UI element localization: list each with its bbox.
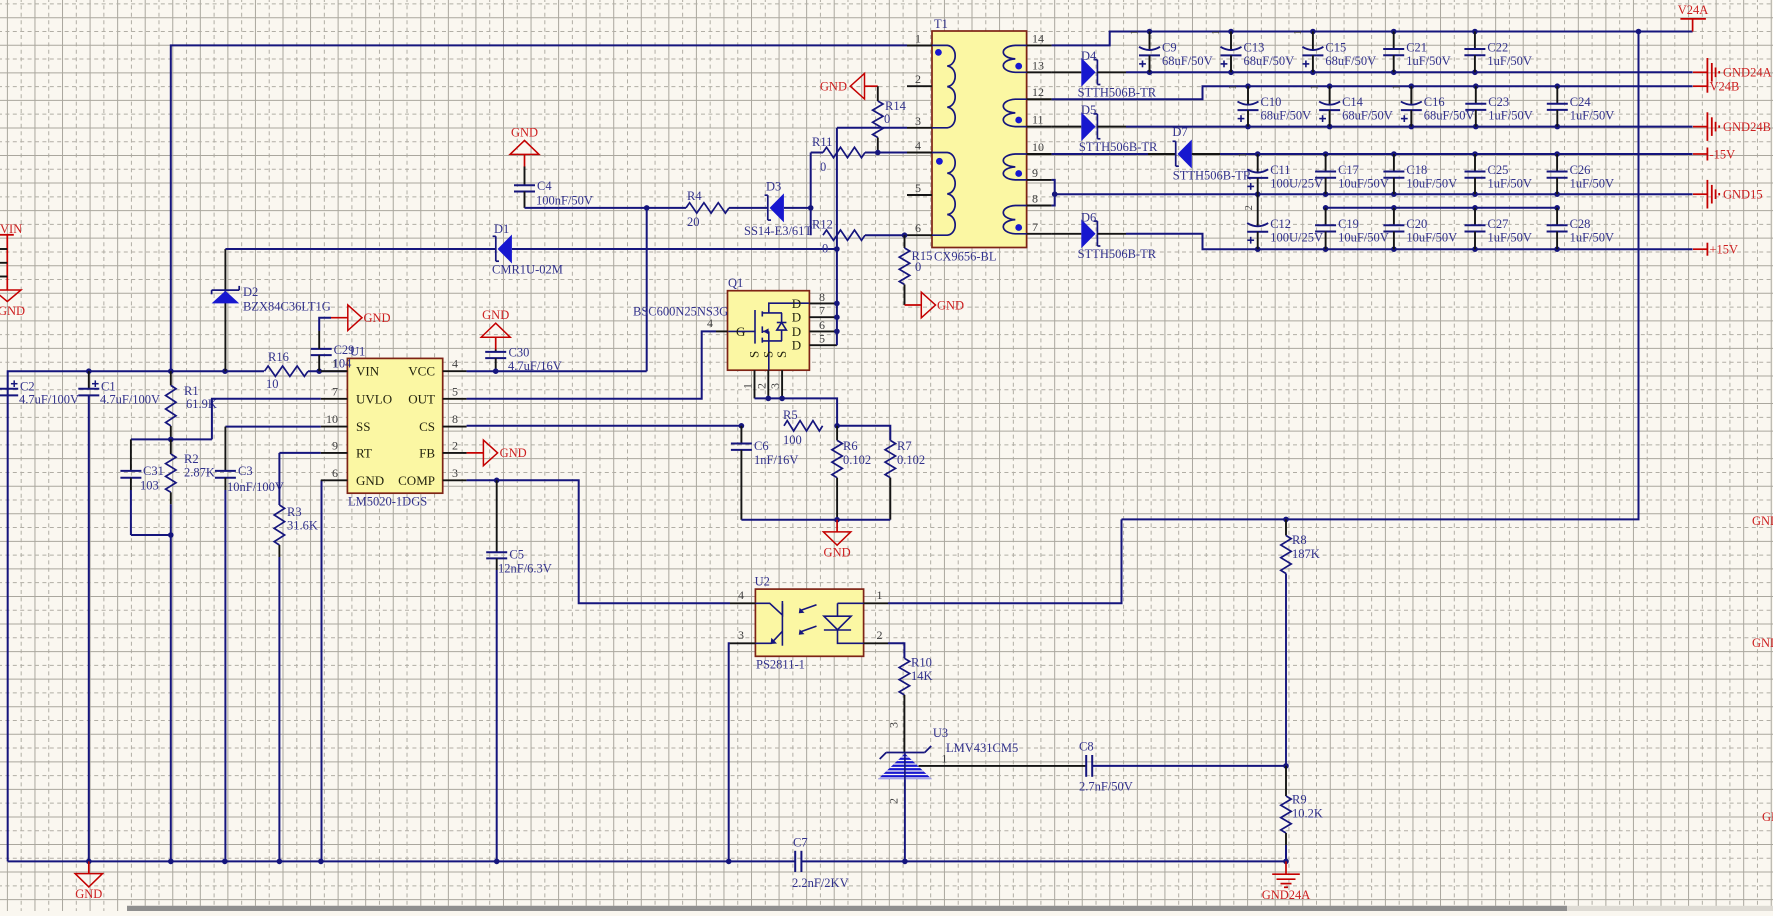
svg-text:1: 1 — [941, 752, 947, 766]
wire bus to U1 VIN — [308, 370, 347, 372]
junction subrail x1475 — [1472, 205, 1478, 211]
resistor R7 lead — [889, 478, 891, 520]
svg-text:0: 0 — [822, 242, 828, 256]
svg-text:C17: C17 — [1338, 163, 1359, 177]
svg-text:C11: C11 — [1270, 163, 1290, 177]
junction +15V x1475 — [1472, 246, 1478, 252]
wire D1 to Q1 drain net — [512, 248, 837, 250]
junction +15V x1557.1 — [1554, 246, 1560, 252]
wire C31 R2 bottom — [131, 534, 171, 536]
svg-text:Q1: Q1 — [728, 276, 743, 290]
svg-text:100U/25V: 100U/25V — [1270, 230, 1323, 244]
pin T1.7 — [1027, 233, 1052, 235]
svg-text:6: 6 — [915, 221, 921, 235]
svg-text:VIN: VIN — [356, 364, 380, 379]
junction V24A x1312.9 — [1310, 29, 1316, 35]
pin T1.14 — [1027, 44, 1052, 46]
wire bottom gnd rail right — [801, 860, 1286, 862]
junction drain 8 — [834, 301, 840, 307]
wire RT — [279, 452, 320, 454]
svg-text:GND: GND — [356, 473, 384, 488]
pin T1.5 — [907, 194, 932, 196]
pin T1.8 — [1027, 205, 1052, 207]
junction GND24A x1149.5 — [1147, 70, 1153, 76]
wire left loop / input bus — [8, 371, 264, 861]
pin Q1 source 2 — [767, 370, 769, 398]
wire row4 top subrail — [1326, 207, 1558, 209]
svg-text:C12: C12 — [1270, 217, 1291, 231]
svg-text:2: 2 — [887, 798, 901, 804]
pin T1.3 — [907, 127, 932, 129]
svg-text:GND2: GND2 — [1752, 636, 1773, 650]
svg-text:5: 5 — [915, 181, 921, 195]
svg-text:D: D — [792, 324, 801, 339]
junction -15V x1475 — [1472, 151, 1478, 157]
svg-text:1: 1 — [877, 588, 883, 602]
junction rail R3 — [277, 859, 283, 865]
junction drain 7 — [834, 314, 840, 320]
svg-text:+15V: +15V — [1710, 243, 1739, 257]
pin T1.10 — [1027, 153, 1052, 155]
svg-text:STTH506B-TR: STTH506B-TR — [1173, 169, 1252, 183]
svg-text:R16: R16 — [268, 350, 289, 364]
pin T1.1 — [907, 44, 932, 46]
svg-text:GND15: GND15 — [1723, 188, 1763, 202]
polarity dot S2 — [1015, 117, 1022, 124]
wire Q1 drain vertical — [836, 128, 838, 345]
pin T1.9 — [1027, 179, 1052, 181]
svg-text:1uF/50V: 1uF/50V — [1570, 230, 1614, 244]
svg-text:1uF/50V: 1uF/50V — [1487, 54, 1531, 68]
svg-text:C1: C1 — [101, 380, 116, 394]
resistor R9 — [1281, 796, 1291, 833]
svg-text:R10: R10 — [911, 656, 932, 670]
svg-text:C22: C22 — [1487, 41, 1508, 55]
junction bus D2 — [222, 368, 228, 374]
svg-text:D3: D3 — [766, 180, 781, 194]
resistor R9 lead — [1285, 766, 1287, 796]
pin U1 right 2 — [443, 452, 467, 454]
diode D2 BZX84C36LT1G — [212, 249, 240, 371]
svg-text:LM5020-1DGS: LM5020-1DGS — [348, 495, 427, 509]
junction -15V x1325.6 — [1323, 151, 1329, 157]
svg-text:2: 2 — [452, 438, 458, 452]
wire U2 pin3 down — [729, 643, 730, 861]
resistor R6 lead — [836, 426, 838, 441]
svg-text:68uF/50V: 68uF/50V — [1342, 109, 1393, 123]
scrollbar track — [127, 906, 1773, 911]
resistor R2 — [166, 454, 176, 492]
resistor R6 lead2 — [836, 478, 838, 520]
svg-text:SS14-E3/61T: SS14-E3/61T — [744, 224, 812, 238]
wire R12 to T1 pin6 — [865, 234, 905, 236]
svg-text:GND: GND — [820, 80, 847, 94]
svg-text:BZX84C36LT1G: BZX84C36LT1G — [243, 300, 331, 314]
junction +15V x1325.6 — [1323, 246, 1329, 252]
svg-text:10: 10 — [326, 412, 338, 426]
svg-text:2.2nF/2KV: 2.2nF/2KV — [792, 876, 849, 890]
wire bottom gnd rail left — [8, 860, 796, 862]
resistor R3 — [274, 505, 284, 545]
svg-text:U3: U3 — [933, 726, 948, 740]
svg-text:2.7nF/50V: 2.7nF/50V — [1079, 780, 1133, 794]
ground GND24A earth — [1272, 861, 1300, 887]
junction C6 — [739, 423, 745, 429]
wire V24A rail — [1052, 32, 1693, 46]
capacitor C7 — [795, 851, 801, 872]
junction GND24B x1557.3 — [1555, 124, 1561, 130]
svg-text:D4: D4 — [1081, 49, 1097, 63]
power GND bottom left — [75, 861, 102, 887]
pin U3.2 — [904, 779, 906, 861]
capacitor C23 — [1465, 86, 1486, 126]
resistor R7 — [885, 440, 895, 477]
svg-text:0.102: 0.102 — [897, 453, 925, 467]
svg-text:0.102: 0.102 — [843, 453, 871, 467]
junction subrail x1393.9 — [1391, 205, 1397, 211]
svg-text:R11: R11 — [812, 135, 832, 149]
svg-text:7: 7 — [819, 304, 825, 318]
resistor R14 — [873, 101, 883, 138]
capacitor C30 — [485, 350, 506, 372]
svg-text:20: 20 — [687, 215, 700, 229]
wire C29 to GND port — [318, 331, 320, 349]
diode D7 STTH506B-TR — [1173, 140, 1192, 169]
svg-text:100: 100 — [783, 433, 802, 447]
svg-text:3: 3 — [768, 383, 782, 389]
svg-text:10uF/50V: 10uF/50V — [1338, 177, 1389, 191]
junction GND24A x1312.9 — [1310, 70, 1316, 76]
resistor R1 leads — [170, 371, 172, 385]
svg-text:C20: C20 — [1406, 217, 1427, 231]
junction R4 VCC — [644, 205, 650, 211]
svg-text:7: 7 — [1032, 220, 1038, 234]
diode D3 SS14-E3/61T — [765, 193, 784, 222]
svg-text:R3: R3 — [287, 505, 302, 519]
pin D6 cathode stub — [1097, 233, 1126, 235]
svg-text:1: 1 — [1391, 85, 1402, 90]
power port -15V — [1693, 148, 1707, 161]
svg-text:2.87K: 2.87K — [184, 466, 215, 480]
pin Q1.7 — [809, 316, 837, 318]
wire SS — [225, 426, 320, 428]
svg-text:D: D — [792, 310, 801, 325]
svg-text:10uF/50V: 10uF/50V — [1406, 230, 1457, 244]
svg-text:68uF/50V: 68uF/50V — [1244, 54, 1295, 68]
svg-text:GND: GND — [511, 125, 538, 139]
svg-text:68uF/50V: 68uF/50V — [1261, 109, 1312, 123]
junction bus VIN/C29 — [316, 368, 322, 374]
svg-text:VCC: VCC — [408, 364, 435, 379]
svg-text:11: 11 — [1032, 113, 1044, 127]
pin D7 cathode stub — [1148, 153, 1176, 155]
gnd triangle FB — [483, 440, 497, 466]
svg-text:C16: C16 — [1424, 95, 1445, 109]
pin U1.6 — [321, 479, 348, 481]
diode D1 CMR1U-02M — [493, 235, 512, 264]
svg-text:GND24A: GND24A — [1262, 888, 1311, 902]
polarity dot W1 — [935, 49, 942, 56]
pin Q1.8 — [809, 302, 837, 304]
svg-text:1: 1 — [1310, 85, 1321, 90]
svg-text:LMV431CM5: LMV431CM5 — [946, 741, 1018, 755]
junction R14 R11 — [875, 150, 881, 156]
op-amp U2 PS2811-1 body — [755, 589, 863, 656]
pin D4 cathode stub — [1097, 71, 1126, 73]
junction gnd stub — [834, 517, 840, 523]
svg-text:U2: U2 — [755, 575, 770, 589]
svg-text:D: D — [792, 338, 801, 353]
junction U3 pin2 rail — [902, 859, 908, 865]
svg-text:1uF/50V: 1uF/50V — [1406, 54, 1450, 68]
capacitor C22 — [1464, 32, 1485, 73]
svg-text:6: 6 — [819, 318, 825, 332]
svg-text:1uF/50V: 1uF/50V — [1570, 109, 1614, 123]
inductor T1 secondary winding 4 — [1003, 206, 1026, 234]
capacitor C16 — [1401, 86, 1422, 126]
junction -15V x1393.9 — [1391, 151, 1397, 157]
inductor T1 secondary winding 1 — [1003, 45, 1026, 72]
resistor R3 lead — [278, 545, 280, 557]
svg-text:R2: R2 — [184, 452, 199, 466]
connector pin stub 2 — [0, 262, 7, 264]
resistor R8 lead2 — [1285, 574, 1287, 766]
svg-text:C5: C5 — [509, 548, 524, 562]
svg-text:31.6K: 31.6K — [287, 519, 318, 533]
junction bus C1 — [86, 368, 92, 374]
junction GND24B x1411.3 — [1409, 124, 1415, 130]
svg-text:10uF/50V: 10uF/50V — [1406, 177, 1457, 191]
svg-text:C21: C21 — [1406, 41, 1427, 55]
wire to R4 — [647, 207, 686, 209]
svg-text:COMP: COMP — [398, 473, 435, 488]
junction GND15 x1325.6 — [1323, 191, 1329, 197]
svg-text:VIN: VIN — [0, 222, 22, 236]
pin Q1.5 — [809, 344, 837, 346]
wire pin10 to D7 — [1052, 153, 1148, 155]
pin U1 right 5 — [443, 398, 467, 400]
resistor R15 lead — [904, 235, 906, 248]
svg-text:R4: R4 — [687, 189, 702, 203]
svg-text:C27: C27 — [1488, 217, 1509, 231]
polarity dot W2 — [936, 158, 943, 165]
power GND above C29 — [331, 305, 362, 331]
junction drain 6 — [834, 329, 840, 335]
svg-text:14K: 14K — [911, 669, 933, 683]
junction V24A x1149.5 — [1147, 29, 1153, 35]
capacitor C14 — [1319, 86, 1340, 126]
junction source 2 — [766, 396, 772, 402]
inductor T1 primary winding 1 — [932, 45, 955, 127]
junction source 3 — [779, 396, 785, 402]
svg-text:GND24A: GND24A — [1723, 66, 1772, 80]
pin U1 right 8 — [443, 426, 467, 428]
junction R9 rail — [1283, 859, 1289, 865]
wire OUT to gate — [467, 331, 716, 398]
resistor R12 — [823, 230, 865, 240]
wire GND15 rail — [1055, 193, 1693, 195]
svg-text:1uF/50V: 1uF/50V — [1488, 177, 1532, 191]
junction GND15 x1557.1 — [1554, 191, 1560, 197]
resistor R14 lead — [877, 86, 879, 101]
svg-text:12: 12 — [1032, 85, 1044, 99]
mosfet symbol Q1 — [728, 303, 809, 370]
capacitor C18 — [1383, 154, 1404, 194]
svg-text:PS2811-1: PS2811-1 — [756, 658, 805, 672]
svg-text:GND: GND — [937, 298, 964, 312]
resistor R11 — [823, 147, 865, 157]
capacitor C2 — [0, 380, 18, 395]
junction rail R2 — [168, 859, 174, 865]
svg-text:0: 0 — [915, 260, 921, 274]
junction GND24A x1474.9 — [1472, 70, 1478, 76]
svg-text:4.7uF/100V: 4.7uF/100V — [19, 393, 79, 407]
wire COMP to U2 pin4 — [467, 480, 730, 603]
wire UVLO — [212, 399, 321, 440]
svg-text:GND: GND — [0, 304, 25, 318]
power GND above C30 — [481, 323, 510, 350]
wire R1-R2 node — [131, 438, 212, 440]
svg-text:10: 10 — [266, 377, 279, 391]
svg-text:GND: GND — [500, 446, 527, 460]
wire R11 left — [811, 152, 823, 154]
svg-text:1uF/50V: 1uF/50V — [1488, 230, 1532, 244]
capacitor C5 — [486, 480, 507, 861]
power port GND15 — [1693, 180, 1719, 209]
junction GND15 x1393.9 — [1391, 191, 1397, 197]
svg-text:4: 4 — [738, 588, 744, 602]
junction -15V x1557.1 — [1554, 151, 1560, 157]
capacitor C24 — [1547, 86, 1568, 126]
svg-text:8: 8 — [1032, 192, 1038, 206]
junction C31 R2 — [168, 532, 174, 538]
svg-text:UVLO: UVLO — [356, 391, 392, 406]
polarity dot S3 — [1015, 170, 1022, 177]
svg-text:3: 3 — [738, 628, 744, 642]
svg-text:10.2K: 10.2K — [1292, 807, 1323, 821]
svg-text:G: G — [736, 324, 745, 339]
pin T1.4 — [907, 152, 932, 154]
junction V24B x1411.3 — [1409, 83, 1415, 89]
pin Q1 source 3 — [781, 370, 783, 398]
svg-text:C3: C3 — [238, 464, 253, 478]
svg-text:C6: C6 — [754, 439, 769, 453]
power port GND24B — [1693, 112, 1719, 141]
capacitor C17 — [1315, 154, 1336, 194]
svg-text:GND1: GND1 — [1752, 514, 1773, 528]
svg-text:7: 7 — [332, 384, 338, 398]
svg-text:D5: D5 — [1081, 103, 1096, 117]
resistor R16 — [265, 366, 309, 376]
junction D3 — [808, 205, 814, 211]
resistor R6 — [832, 440, 842, 477]
junction COMP C5 — [494, 478, 500, 484]
svg-text:1: 1 — [1238, 152, 1249, 157]
svg-text:68uF/50V: 68uF/50V — [1325, 54, 1376, 68]
svg-text:C13: C13 — [1244, 41, 1265, 55]
svg-text:D: D — [792, 296, 801, 311]
resistor R10 — [899, 658, 909, 695]
resistor R4 — [686, 203, 729, 213]
capacitor C11 — [1247, 154, 1268, 194]
inductor T1 secondary winding 2 — [1003, 99, 1026, 126]
wire down to VCC — [646, 208, 648, 371]
capacitor C26 — [1547, 154, 1568, 194]
power GND at FB — [467, 452, 484, 454]
pin D7 anode stub — [1192, 153, 1220, 155]
svg-text:C18: C18 — [1406, 163, 1427, 177]
svg-text:12nF/6.3V: 12nF/6.3V — [498, 562, 552, 576]
junction R8 top — [1283, 517, 1289, 523]
junction R8 R9 C8 — [1283, 763, 1289, 769]
svg-text:10uF/50V: 10uF/50V — [1338, 230, 1389, 244]
junction GND24A x1393.7 — [1391, 70, 1397, 76]
op-amp U1 LM5020-1DGS body — [347, 358, 442, 493]
svg-text:R14: R14 — [885, 99, 907, 113]
svg-text:1: 1 — [915, 31, 921, 45]
svg-text:C9: C9 — [1162, 41, 1177, 55]
svg-text:103: 103 — [140, 479, 159, 493]
wire source to CS net — [755, 398, 838, 425]
pin D5 anode stub — [1052, 126, 1082, 128]
wire D2 to D1 — [225, 248, 496, 250]
svg-text:C2: C2 — [20, 380, 35, 394]
svg-text:0: 0 — [884, 112, 890, 126]
junction R1 R2 — [168, 437, 174, 443]
svg-text:1uF/50V: 1uF/50V — [1488, 109, 1532, 123]
capacitor C8 — [1086, 755, 1092, 777]
svg-text:V24A: V24A — [1678, 3, 1709, 17]
pin U3.1 wire — [919, 765, 1087, 767]
wire to R7 — [837, 426, 890, 441]
svg-text:C7: C7 — [793, 836, 808, 850]
capacitor C10 — [1238, 86, 1259, 126]
transistor U3 LMV431 symbol — [870, 746, 940, 779]
svg-text:6: 6 — [332, 466, 338, 480]
pin U1.1 — [321, 370, 348, 372]
svg-text:GND: GND — [824, 545, 851, 559]
svg-text:CX9656-BL: CX9656-BL — [934, 250, 997, 264]
ground GND left-edge — [0, 290, 21, 302]
svg-text:13: 13 — [1032, 58, 1044, 72]
capacitor C13 — [1221, 32, 1242, 73]
wire V24A to R8 rail — [1122, 32, 1639, 520]
junction GND24B x1329.6 — [1327, 124, 1333, 130]
wire D3 to R11R12 net — [784, 207, 811, 209]
capacitor C27 — [1465, 208, 1486, 249]
connector pin stub 1 — [0, 248, 7, 250]
svg-text:2: 2 — [915, 72, 921, 86]
power GND below R15 — [905, 292, 936, 318]
pin U1.7 — [321, 398, 348, 400]
pin D6 anode stub — [1052, 233, 1082, 235]
svg-text:C14: C14 — [1342, 95, 1364, 109]
resistor R14 lead2 — [877, 138, 879, 153]
resistor R8 lead — [1285, 519, 1287, 535]
pin D5 cathode stub — [1097, 126, 1126, 128]
capacitor C3 — [215, 427, 236, 862]
svg-text:T1: T1 — [934, 17, 948, 31]
svg-text:C28: C28 — [1570, 217, 1591, 231]
svg-text:CMR1U-02M: CMR1U-02M — [492, 263, 563, 277]
svg-text:D1: D1 — [494, 222, 509, 236]
svg-text:S: S — [774, 351, 789, 358]
pin Q1 source 1 — [754, 370, 756, 398]
junction R15 — [902, 232, 908, 238]
wire GND24B rail — [1126, 126, 1693, 128]
power port +15V — [1693, 243, 1707, 256]
junction V24A x1638.5 — [1636, 29, 1642, 35]
